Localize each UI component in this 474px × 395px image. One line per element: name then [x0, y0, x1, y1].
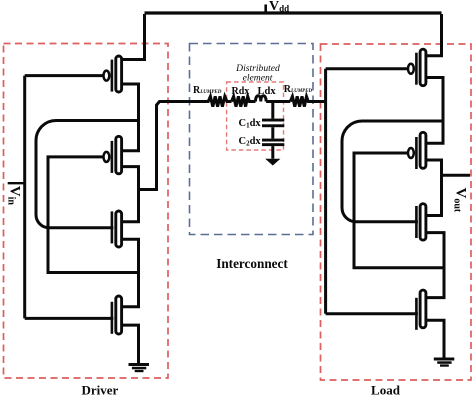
transistor M4 NMOS driver — [112, 296, 122, 334]
wire: load output node (T2 drain - T3 drain) — [427, 160, 442, 216]
transistor M6 PMOS load — [408, 132, 426, 169]
wire: between C1 and C2 — [271, 127, 274, 138]
wire: load T4 source to ground — [427, 320, 444, 357]
transistor M7 NMOS load — [416, 204, 426, 240]
Vdd rail — [145, 11, 442, 14]
ground arrow interconnect — [265, 159, 280, 166]
transistor M1 PMOS driver — [104, 56, 122, 92]
Driver dashed box — [4, 44, 169, 379]
wire: driver T2 gate to node Y — [48, 157, 137, 273]
ground load — [434, 358, 455, 367]
wire: capacitor branch — [271, 102, 274, 119]
wire: load T2 gate to node Y — [354, 153, 444, 268]
wire: C2 to ground arrow — [271, 146, 274, 159]
wire: driver T1 gate — [25, 74, 104, 77]
wire: load node Y (T3 source - T4 drain) — [427, 233, 444, 298]
wire: load T4 gate — [326, 312, 418, 315]
svg-text:Driver: Driver — [81, 383, 118, 395]
resistor R_LUMPED right — [290, 96, 324, 106]
svg-text:C1dx: C1dx — [239, 118, 262, 130]
wire: load T1 gate — [326, 67, 408, 70]
wire: load input vertical — [324, 69, 327, 314]
capacitor C2dx — [262, 139, 284, 146]
transistor M3 NMOS driver — [112, 211, 122, 247]
Distributed element dashed box — [227, 82, 284, 150]
wire: driver T3 top to output node — [123, 190, 139, 222]
wire: Ldx to node and junction — [266, 100, 290, 103]
wire: Vout tap — [442, 174, 471, 177]
wire: driver T4 source to ground — [123, 325, 139, 363]
svg-text:Interconnect: Interconnect — [216, 256, 288, 271]
inductor Ldx — [255, 96, 266, 102]
wire: driver output node (T2 drain - T3 drain) and jog to interconnect — [123, 102, 189, 190]
Load dashed box — [321, 44, 472, 380]
transistor M2 PMOS driver — [104, 136, 122, 174]
transistor M8 NMOS load — [416, 290, 426, 330]
wire: load feedback curve node X to T3 gate — [342, 121, 443, 222]
svg-text:element: element — [243, 73, 273, 84]
wire: driver feedback curve node X to T3 gate — [36, 121, 139, 228]
wire: Vin input vertical — [23, 76, 26, 319]
wire: driver T1 source to Vdd rail — [123, 14, 145, 60]
svg-text:Load: Load — [371, 383, 401, 395]
Vin terminal tick — [8, 182, 25, 184]
wire: driver node X (T1 drain - T2 source) — [123, 84, 139, 151]
svg-text:C2dx: C2dx — [239, 136, 262, 148]
ground driver — [129, 363, 150, 372]
svg-text:Ldx: Ldx — [258, 86, 277, 97]
wire: load T1 source to Vdd rail — [427, 14, 442, 56]
Vdd terminal tick — [264, 5, 267, 14]
wire: load node X (T1 drain - T2 source) — [427, 78, 443, 144]
wire: driver T4 gate — [25, 317, 114, 320]
resistor Rdx — [232, 96, 256, 106]
transistor M5 PMOS load — [408, 49, 426, 85]
capacitor C1dx — [262, 119, 284, 128]
resistor R_LUMPED left — [189, 96, 232, 106]
svg-text:Rdx: Rdx — [232, 86, 250, 97]
wire: driver node Y (T3 source - T4 drain) — [123, 239, 139, 307]
Interconnect dashed box — [190, 44, 314, 235]
